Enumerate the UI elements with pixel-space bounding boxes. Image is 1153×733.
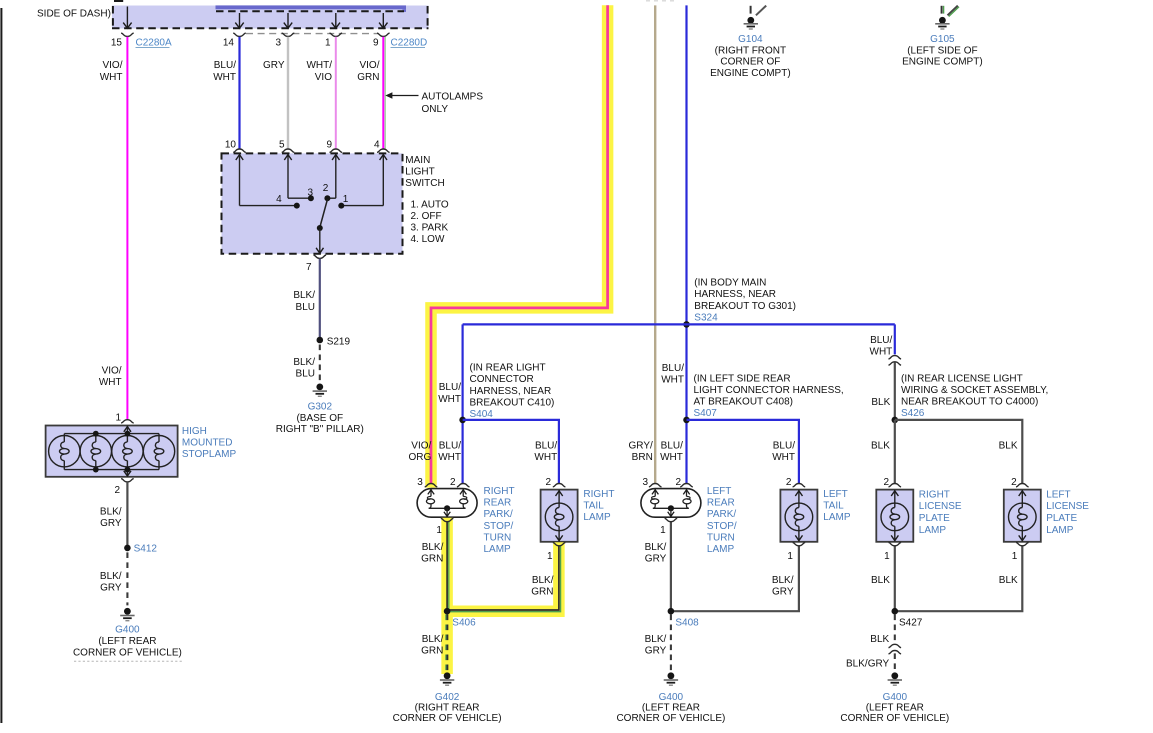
svg-text:LICENSE: LICENSE — [1046, 501, 1089, 512]
label SIDE OF DASH — [37, 9, 111, 20]
svg-text:1: 1 — [343, 194, 349, 205]
svg-text:ORG: ORG — [409, 452, 432, 463]
left rear lamp pin numbers 3 2 — [642, 477, 681, 488]
svg-text:VIO/: VIO/ — [411, 440, 431, 451]
ground G400 right description — [840, 703, 949, 725]
svg-text:14: 14 — [223, 38, 235, 49]
svg-text:GRY: GRY — [263, 60, 285, 71]
svg-text:WHT: WHT — [772, 452, 795, 463]
left tail lamp pin 1 connector arc — [793, 542, 806, 545]
svg-text:WHT: WHT — [438, 394, 461, 405]
switch contact label 3 — [307, 187, 313, 198]
ground G400 mid description — [616, 703, 725, 725]
label BLU/WHT right tail lamp — [534, 440, 557, 463]
label BLK/GRY G400 lead — [846, 658, 889, 669]
switch internal contact 9 wire — [327, 155, 339, 199]
connector C2280A dashed gray tie line — [246, 33, 378, 35]
right rear lamp pin 1 connector arc — [441, 518, 454, 521]
svg-text:1. AUTO: 1. AUTO — [411, 200, 449, 211]
right tail lamp pin number 2 — [545, 477, 551, 488]
svg-text:HARNESS, NEAR: HARNESS, NEAR — [470, 386, 552, 397]
svg-text:S324: S324 — [694, 312, 718, 323]
svg-text:STOPLAMP: STOPLAMP — [182, 449, 237, 460]
svg-text:S407: S407 — [694, 408, 718, 419]
svg-text:TURN: TURN — [484, 532, 512, 543]
ground G302 symbol — [313, 384, 327, 397]
svg-text:LEFT: LEFT — [1046, 489, 1070, 500]
svg-text:HIGH: HIGH — [182, 426, 207, 437]
svg-text:LAMP: LAMP — [1046, 525, 1074, 536]
switch output wire to pin 7 — [316, 229, 323, 253]
svg-text:PLATE: PLATE — [1046, 513, 1077, 524]
switch contact dot 4 — [294, 203, 300, 209]
wire VIO/GRN pin9 to pin4 — [383, 37, 385, 149]
note at S324 (IN BODY MAIN HARNESS...) — [694, 278, 796, 312]
high mounted stoplamp box — [46, 426, 178, 477]
svg-text:3: 3 — [307, 187, 313, 198]
ground G105 symbol — [935, 6, 959, 29]
switch pin connector arc x=288.0 — [282, 149, 295, 152]
svg-text:2: 2 — [786, 477, 792, 488]
right tail lamp pin 1 connector arc — [553, 542, 566, 545]
svg-text:C2280D: C2280D — [391, 38, 428, 49]
svg-text:1: 1 — [325, 38, 331, 49]
svg-text:WHT: WHT — [661, 375, 684, 386]
svg-text:S404: S404 — [470, 409, 494, 420]
svg-text:2: 2 — [883, 477, 889, 488]
ground label G105 — [930, 34, 955, 45]
label LEFT REAR PARK/STOP/TURN LAMP — [707, 486, 737, 555]
svg-text:BLK: BLK — [871, 397, 890, 408]
svg-text:(RIGHT REAR: (RIGHT REAR — [415, 703, 480, 714]
ground label G400 right — [883, 692, 908, 703]
ground G402 symbol — [440, 672, 454, 685]
svg-text:G104: G104 — [738, 34, 763, 45]
svg-text:G400: G400 — [659, 692, 684, 703]
label RIGHT LICENSE PLATE LAMP — [919, 489, 962, 535]
switch internal contact 10 wire — [236, 155, 297, 206]
left license lamp pin 1 number — [1012, 551, 1018, 562]
svg-text:ENGINE COMPT): ENGINE COMPT) — [710, 68, 791, 79]
svg-text:LICENSE: LICENSE — [919, 501, 962, 512]
svg-text:4. LOW: 4. LOW — [411, 234, 445, 245]
switch pin connector arc x=239.5 — [233, 149, 246, 152]
ground G400 mid symbol — [664, 672, 678, 685]
label BLK/BLU upper — [293, 290, 315, 313]
svg-text:WIRING & SOCKET ASSEMBLY,: WIRING & SOCKET ASSEMBLY, — [901, 385, 1048, 396]
wire BLU/WHT main vertical to left rear lamp pin 2 — [685, 5, 687, 483]
svg-text:BLK/: BLK/ — [293, 290, 315, 301]
svg-text:BLK/: BLK/ — [422, 542, 444, 553]
wire BLK/GRY dashed S408 to G400 — [670, 615, 672, 672]
svg-text:GRY: GRY — [100, 583, 122, 594]
svg-text:GRN: GRN — [421, 646, 443, 657]
svg-text:TAIL: TAIL — [823, 500, 844, 511]
svg-text:REAR: REAR — [707, 498, 735, 509]
label BLU/WHT between S324 and S407 — [661, 363, 684, 386]
svg-text:PLATE: PLATE — [919, 513, 950, 524]
svg-text:2: 2 — [545, 477, 551, 488]
label BLK left license pin1 — [999, 575, 1018, 586]
left rear lamp pin 1 number — [660, 525, 666, 536]
switch contact label 4 — [276, 194, 282, 205]
svg-text:WHT: WHT — [870, 347, 893, 358]
lamp pin 3 connector arc x=655.2 — [649, 484, 662, 487]
svg-text:GRN: GRN — [531, 586, 553, 597]
svg-text:PARK/: PARK/ — [484, 509, 513, 520]
svg-text:9: 9 — [373, 38, 379, 49]
svg-text:REAR: REAR — [484, 498, 512, 509]
splice label S426 — [901, 408, 925, 419]
svg-text:VIO/: VIO/ — [102, 366, 122, 377]
switch pin connector arc x=335.8 — [330, 149, 343, 152]
wire BLU/WHT S404 to right tail lamp pin 2 — [463, 420, 559, 483]
svg-text:WHT/: WHT/ — [306, 60, 332, 71]
switch pin number 5 — [279, 139, 285, 150]
svg-text:CORNER OF VEHICLE): CORNER OF VEHICLE) — [616, 713, 725, 724]
svg-text:RIGHT: RIGHT — [583, 489, 614, 500]
label BLK below S427 — [870, 634, 889, 645]
connector box C2280 (side of dash) lavender dashed box — [112, 6, 429, 29]
ground G302 description — [276, 413, 364, 435]
svg-text:(RIGHT FRONT: (RIGHT FRONT — [715, 45, 786, 56]
svg-text:GRY: GRY — [645, 554, 667, 565]
right rear park/stop/turn lamp — [417, 489, 477, 518]
svg-text:CORNER OF VEHICLE): CORNER OF VEHICLE) — [73, 647, 182, 658]
svg-text:LAMP: LAMP — [707, 544, 735, 555]
switch contact label 1 — [343, 194, 349, 205]
switch wiper arm — [320, 200, 327, 227]
wire BLK S426 to left license lamp pin 2 — [895, 420, 1023, 483]
label LEFT TAIL LAMP — [823, 489, 851, 523]
ground G400 left description — [73, 636, 182, 659]
svg-text:BLU/: BLU/ — [535, 440, 557, 451]
svg-text:(LEFT REAR: (LEFT REAR — [866, 703, 924, 714]
svg-text:BLU/: BLU/ — [214, 60, 236, 71]
switch pin number 10 — [225, 139, 237, 150]
svg-text:3: 3 — [642, 477, 648, 488]
wire BLK/GRN highlighted right rear lamp pin1 / tail pin1 to S406 — [447, 518, 560, 674]
lamp pin 2 connector arc x=1022.3 — [1016, 484, 1029, 487]
svg-text:BLK: BLK — [871, 440, 890, 451]
svg-text:WHT: WHT — [100, 72, 123, 83]
svg-text:WHT: WHT — [438, 452, 461, 463]
arrow pin 9 inside box — [379, 13, 387, 28]
svg-text:CORNER OF VEHICLE): CORNER OF VEHICLE) — [840, 713, 949, 724]
wire BLU/WHT corner down to license connector — [894, 324, 896, 354]
pin number 1 — [325, 38, 331, 49]
svg-text:BLU/: BLU/ — [439, 440, 461, 451]
svg-text:BLK/: BLK/ — [100, 506, 122, 517]
inline connector on license feed — [889, 356, 902, 366]
switch internal contact 5 wire — [284, 155, 311, 199]
svg-text:10: 10 — [225, 139, 237, 150]
label BLK above S426 — [871, 397, 890, 408]
svg-text:(BASE OF: (BASE OF — [296, 413, 343, 424]
svg-text:1: 1 — [115, 412, 121, 423]
left license lamp pin 1 connector arc — [1016, 542, 1029, 545]
arrow pin 3 inside box — [284, 13, 292, 28]
svg-text:G400: G400 — [883, 692, 908, 703]
lamp pin 2 connector arc x=798.9 — [793, 484, 806, 487]
svg-text:RIGHT: RIGHT — [919, 489, 950, 500]
pin connector arc at x=127.4 — [121, 33, 134, 36]
svg-text:4: 4 — [374, 139, 380, 150]
svg-text:BLU/: BLU/ — [773, 440, 795, 451]
svg-text:2: 2 — [1011, 477, 1017, 488]
page frame left border — [0, 8, 2, 723]
svg-text:LIGHT: LIGHT — [405, 166, 434, 177]
pin number 3 — [275, 38, 281, 49]
ground label G400 mid — [659, 692, 684, 703]
ground label G302 — [308, 402, 333, 413]
pin connector arc at x=239.5 — [233, 33, 246, 36]
pin number 14 — [223, 38, 235, 49]
label BLU/WHT above S404 — [438, 382, 461, 405]
svg-text:BLU: BLU — [296, 369, 315, 380]
label BLU/WHT left tail lamp — [772, 440, 795, 463]
label BLK/GRY lower left — [100, 571, 122, 594]
switch contact label 2 — [323, 183, 329, 194]
switch pin number 7 — [306, 262, 312, 273]
pin connector arc at x=288.0 — [282, 33, 295, 36]
left rear park/stop/turn lamp — [641, 489, 701, 518]
svg-text:BLK/: BLK/ — [293, 357, 315, 368]
switch pin number 9 — [326, 139, 332, 150]
splice S427 — [892, 608, 899, 615]
label BLU/WHT — [213, 60, 236, 83]
svg-text:BLU/: BLU/ — [870, 335, 892, 346]
main light switch box — [222, 153, 403, 253]
label BLK/GRN below S406 — [421, 634, 443, 657]
svg-text:5: 5 — [279, 139, 285, 150]
stoplamp pin number 2 — [114, 485, 120, 496]
label BLK right license pin1 — [871, 575, 890, 586]
svg-text:2: 2 — [114, 485, 120, 496]
label BLK/GRY left rear — [645, 542, 667, 565]
note at S426 (IN REAR LICENSE LIGHT WIRING...) — [901, 373, 1048, 407]
svg-text:TURN: TURN — [707, 532, 735, 543]
svg-text:C2280A: C2280A — [136, 38, 172, 49]
svg-text:BLK/: BLK/ — [645, 634, 667, 645]
label BLK/GRY left tail — [772, 575, 794, 598]
stoplamp pin number 1 — [115, 412, 121, 423]
svg-text:BLK/: BLK/ — [422, 634, 444, 645]
label LEFT LICENSE PLATE LAMP — [1046, 489, 1089, 535]
left rear lamp pin 1 connector arc — [665, 518, 678, 521]
wire GRY pin3 to pin5 — [287, 37, 289, 149]
wire BLK/GRY left rear lamp pin1 / left tail pin1 to S408 — [671, 522, 799, 611]
faint cropped dash artifact top centre — [646, 0, 676, 2]
svg-text:2: 2 — [323, 183, 329, 194]
label BLK/GRY stoplamp — [100, 506, 122, 529]
svg-text:LAMP: LAMP — [583, 512, 611, 523]
arrow pin 14 inside box — [235, 13, 243, 28]
splice label S219 — [327, 336, 351, 347]
svg-text:GRN: GRN — [357, 72, 379, 83]
svg-text:VIO: VIO — [315, 72, 332, 83]
wire BLU/WHT pin14 to pin10 — [238, 37, 240, 149]
label BLK/GRY below S408 — [645, 634, 667, 657]
right rear lamp pin numbers 3 2 — [417, 477, 456, 488]
connector label C2280D — [391, 38, 428, 49]
svg-text:AT BREAKOUT C408): AT BREAKOUT C408) — [694, 397, 793, 408]
svg-text:1: 1 — [547, 551, 553, 562]
svg-text:TAIL: TAIL — [583, 500, 604, 511]
svg-text:9: 9 — [326, 139, 332, 150]
svg-text:BLU/: BLU/ — [439, 382, 461, 393]
label WHT/VIO — [306, 60, 332, 83]
high mounted stoplamp pin 1 connector arc — [121, 420, 134, 423]
inline connector on G400 lead — [889, 644, 902, 654]
label BLK/GRN right tail — [531, 575, 553, 598]
wire VIO/ORG highlighted yellow run to right rear lamp pin 3 — [431, 5, 608, 487]
wire BLK connector to S426 — [894, 362, 896, 420]
wire BLK/GRY stoplamp to S412 — [126, 482, 128, 546]
wire BLK/BLU dashed S219 to G302 — [319, 345, 321, 383]
svg-text:LAMP: LAMP — [823, 512, 851, 523]
svg-text:S406: S406 — [452, 618, 476, 629]
svg-text:BREAKOUT TO G301): BREAKOUT TO G301) — [694, 301, 796, 312]
label BLU/WHT left rear lamp pin 2 — [660, 440, 683, 463]
label GRY — [263, 60, 285, 71]
wire BLU/WHT branch down to S404 — [462, 324, 464, 483]
splice S407 — [683, 417, 690, 424]
svg-text:WHT: WHT — [213, 72, 236, 83]
svg-text:BLK/: BLK/ — [645, 542, 667, 553]
svg-text:HARNESS, NEAR: HARNESS, NEAR — [694, 289, 776, 300]
pin connector arc at x=335.8 — [330, 33, 343, 36]
svg-text:LAMP: LAMP — [484, 544, 512, 555]
label VIO/ORG — [409, 440, 432, 463]
svg-text:GRY/: GRY/ — [629, 440, 653, 451]
svg-text:AUTOLAMPS: AUTOLAMPS — [422, 92, 484, 103]
lamp pin 2 connector arc x=559.1 — [553, 484, 566, 487]
svg-text:BLK: BLK — [870, 634, 889, 645]
label VIO/GRN — [357, 60, 379, 83]
note at S404 (IN REAR LIGHT CONNECTOR HARNESS...) — [470, 363, 555, 409]
ground label G402 — [435, 692, 460, 703]
svg-text:(LEFT REAR: (LEFT REAR — [642, 703, 700, 714]
svg-text:1: 1 — [884, 551, 890, 562]
svg-text:1: 1 — [660, 525, 666, 536]
svg-text:(LEFT REAR: (LEFT REAR — [98, 636, 156, 647]
splice label S406 — [452, 618, 476, 629]
splice label S427 — [899, 618, 923, 629]
svg-text:BLK/: BLK/ — [532, 575, 554, 586]
svg-text:BLU: BLU — [296, 302, 315, 313]
svg-text:ENGINE COMPT): ENGINE COMPT) — [902, 57, 983, 68]
wire VIO/WHT pin15 to stoplamp — [126, 37, 128, 419]
splice S404 — [459, 417, 466, 424]
ground G400 right symbol — [888, 672, 902, 685]
right rear lamp pin 1 number — [436, 525, 442, 536]
pin number 9 — [373, 38, 379, 49]
wire BLK/GRN dashed S406 to G402 — [446, 615, 448, 672]
svg-text:BRN: BRN — [632, 452, 653, 463]
wire BLK right license pin1 / left license pin1 to S427 — [895, 546, 1023, 611]
svg-text:3: 3 — [417, 477, 423, 488]
right license lamp pin 1 connector arc — [889, 542, 902, 545]
left license plate lamp — [1004, 490, 1041, 542]
svg-text:WHT: WHT — [99, 377, 122, 388]
label VIO/WHT mid — [99, 366, 122, 389]
splice S412 — [124, 545, 131, 552]
switch pin number 4 — [374, 139, 380, 150]
svg-text:BLK: BLK — [999, 440, 1018, 451]
splice S324 — [683, 321, 690, 328]
label RIGHT REAR PARK/STOP/TURN LAMP — [484, 486, 515, 555]
left tail lamp pin 1 number — [787, 551, 793, 562]
stoplamp internal bus and bulbs — [49, 426, 175, 477]
svg-text:1: 1 — [787, 551, 793, 562]
wire BLU/WHT S324 horizontal bus — [463, 323, 895, 325]
label BLK right license — [871, 440, 890, 451]
license lamps pin numbers 2 — [883, 477, 1017, 488]
label BLK left license — [999, 440, 1018, 451]
right tail lamp — [541, 490, 578, 542]
ground G400 left symbol — [120, 608, 134, 621]
svg-text:BLK/GRY: BLK/GRY — [846, 658, 889, 669]
arrow pin 1 inside box — [332, 13, 340, 28]
label BLU/WHT license branch — [870, 335, 893, 358]
svg-text:(IN REAR LICENSE LIGHT: (IN REAR LICENSE LIGHT — [901, 373, 1023, 384]
switch contact dot 2 — [324, 195, 330, 201]
switch internal contact 4 wire — [341, 155, 387, 206]
lamp pin 2 connector arc x=894.8 — [889, 484, 902, 487]
svg-text:(IN BODY MAIN: (IN BODY MAIN — [694, 278, 766, 289]
svg-text:2: 2 — [675, 477, 681, 488]
svg-text:ONLY: ONLY — [422, 104, 449, 115]
left tail lamp pin number 2 — [786, 477, 792, 488]
ground G104 symbol — [744, 6, 767, 29]
splice label S404 — [470, 409, 494, 420]
svg-text:1: 1 — [1012, 551, 1018, 562]
label BLK/BLU lower — [293, 357, 315, 380]
svg-text:3: 3 — [275, 38, 281, 49]
ground G402 description — [393, 703, 502, 725]
svg-text:S408: S408 — [675, 618, 699, 629]
svg-text:MAIN: MAIN — [405, 155, 430, 166]
svg-text:7: 7 — [306, 262, 312, 273]
ground G105 description — [902, 45, 983, 67]
lamp pin 2 connector arc x=686.5 — [680, 484, 693, 487]
svg-text:WHT: WHT — [660, 452, 683, 463]
pin connector arc at x=383.3 — [377, 33, 390, 36]
svg-text:RIGHT "B" PILLAR): RIGHT "B" PILLAR) — [276, 424, 364, 435]
splice S406 — [444, 608, 451, 615]
svg-text:SIDE OF DASH): SIDE OF DASH) — [37, 9, 111, 20]
svg-text:GRY: GRY — [100, 518, 122, 529]
splice S408 — [668, 608, 675, 615]
svg-text:STOP/: STOP/ — [484, 521, 514, 532]
wire GRY/BRN to left rear lamp pin 3 — [654, 5, 656, 483]
right license lamp pin 1 number — [884, 551, 890, 562]
dotted underline artifact — [74, 660, 182, 662]
left tail lamp — [780, 490, 817, 542]
label MAIN LIGHT SWITCH — [405, 155, 444, 189]
svg-text:BREAKOUT C410): BREAKOUT C410) — [470, 397, 555, 408]
svg-text:(IN REAR LIGHT: (IN REAR LIGHT — [470, 363, 546, 374]
label VIO/WHT top — [100, 60, 123, 83]
svg-text:LEFT: LEFT — [823, 489, 847, 500]
wire BLK/GRY dashed S412 to G400 — [126, 552, 128, 605]
svg-text:GRY: GRY — [772, 586, 794, 597]
svg-text:1: 1 — [436, 525, 442, 536]
wire BLK dashed S427 to connector — [894, 615, 896, 643]
svg-text:15: 15 — [111, 38, 123, 49]
svg-text:BLK: BLK — [999, 575, 1018, 586]
